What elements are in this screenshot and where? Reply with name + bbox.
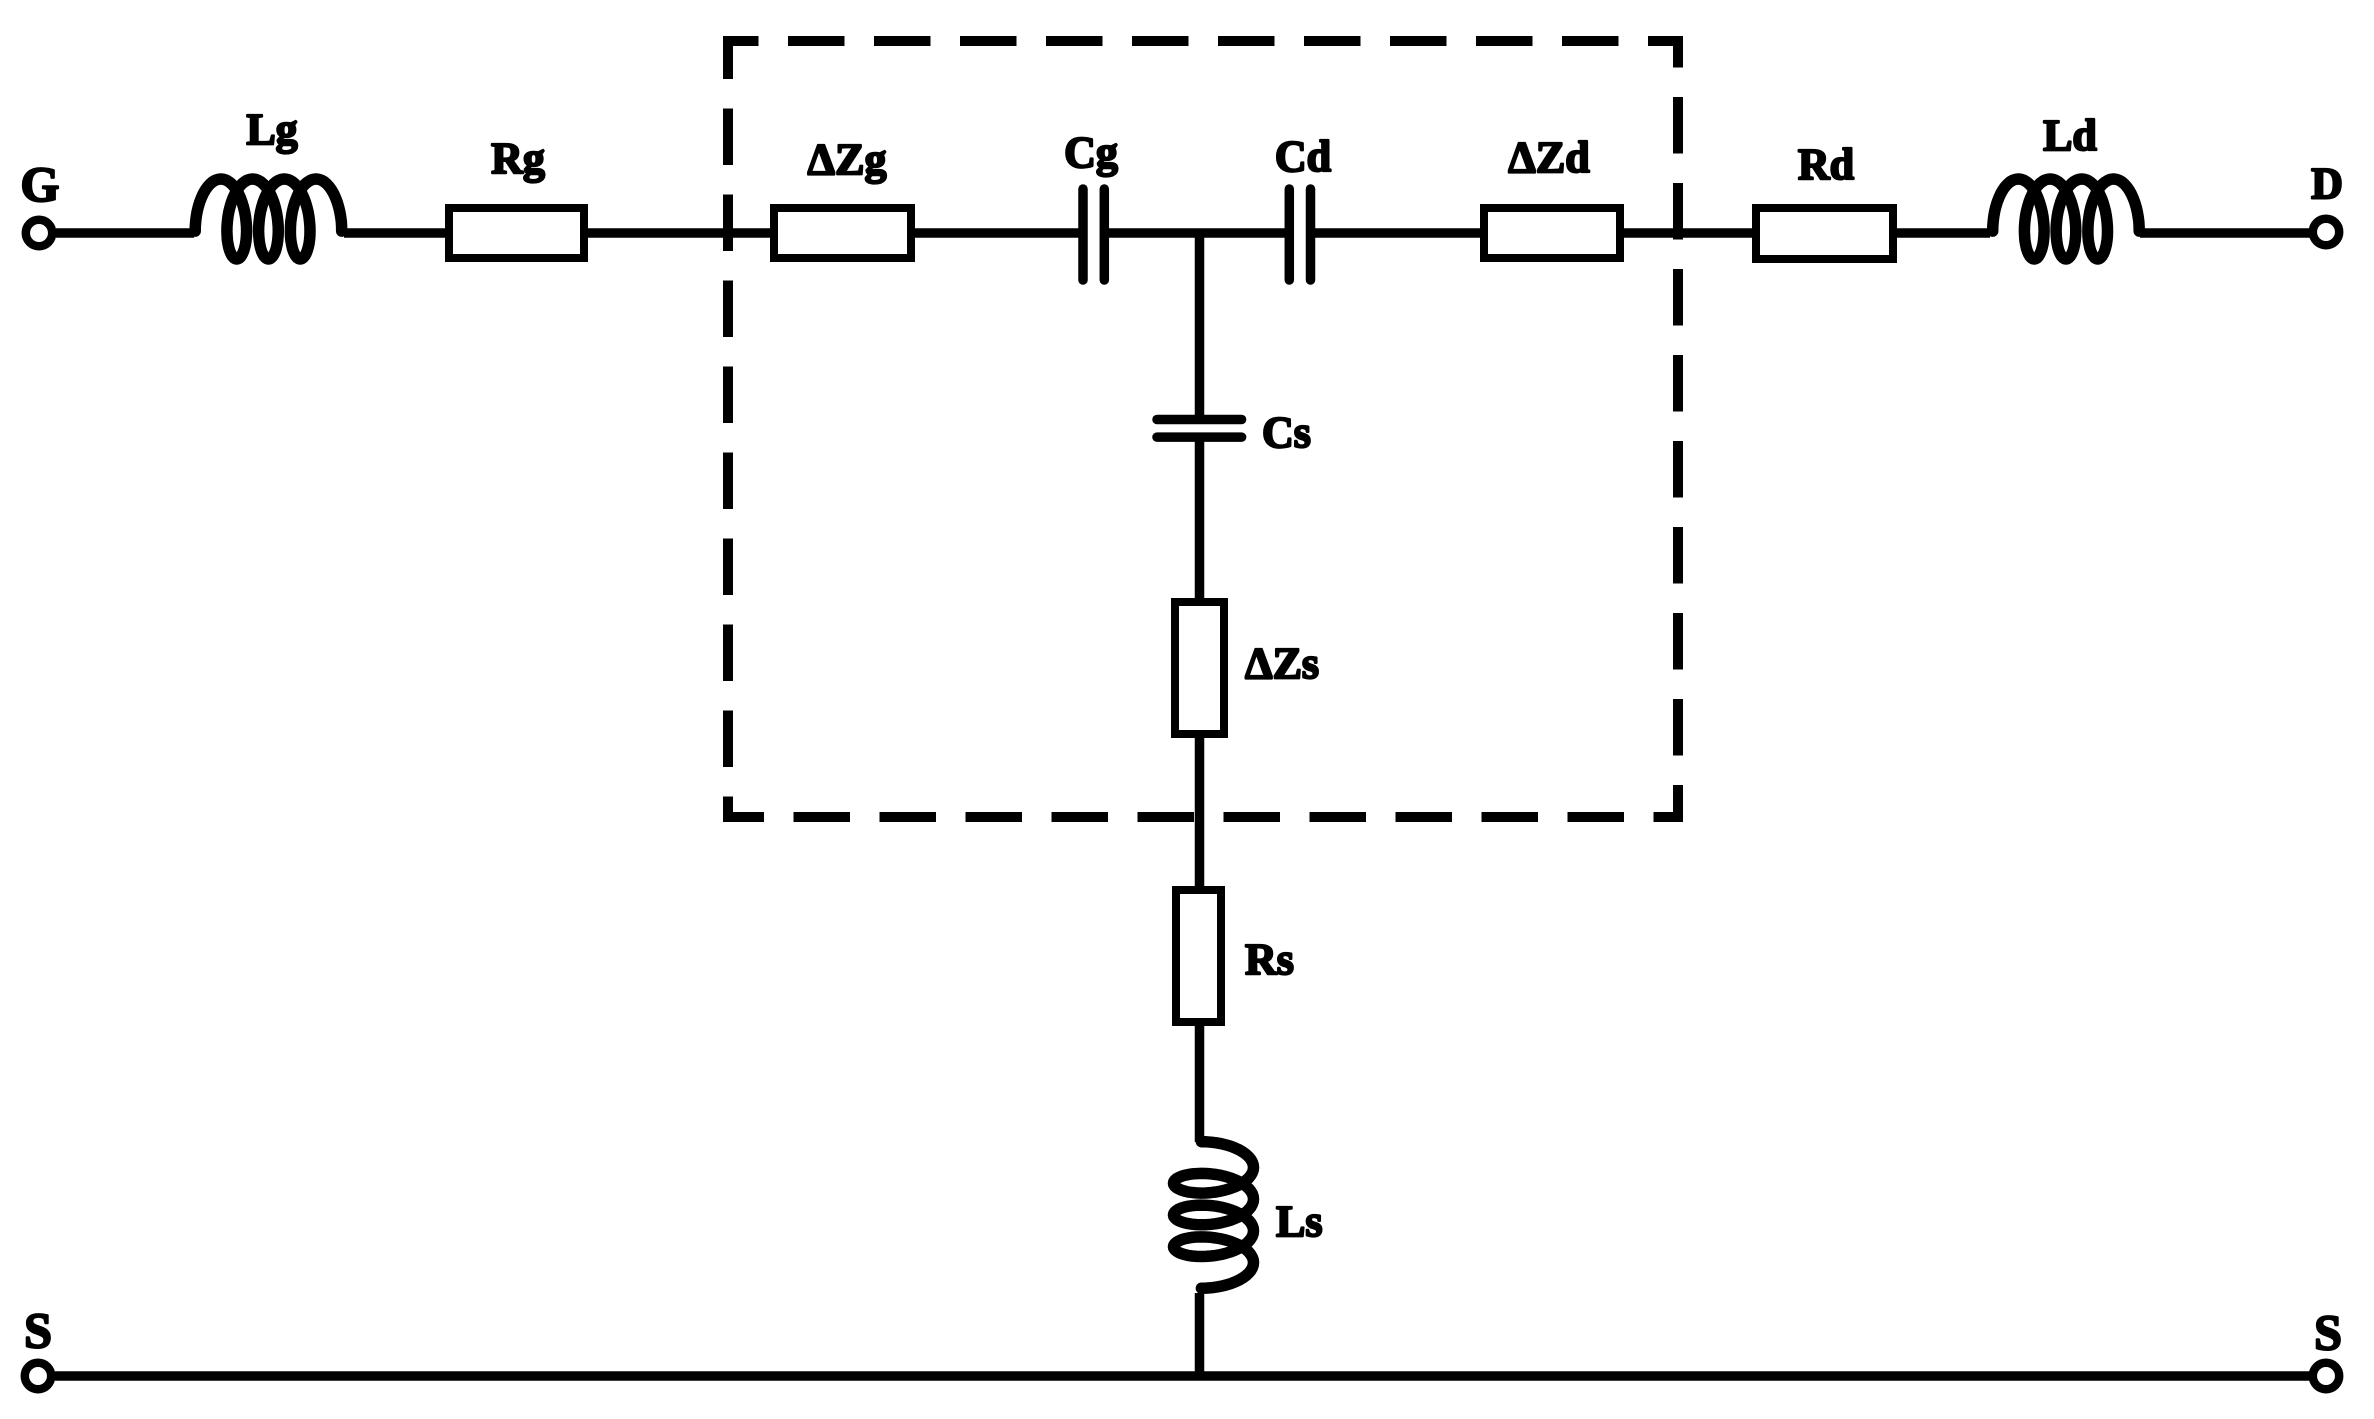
svg-text:S: S [2314, 1304, 2342, 1360]
wire Cs to dZs [1195, 440, 1205, 602]
inductor Lg [195, 105, 342, 259]
svg-text:Rd: Rd [1798, 140, 1854, 189]
svg-text:G: G [21, 156, 60, 212]
source bus wire S to S [55, 1371, 2310, 1381]
resistor Rg [449, 134, 584, 258]
resistor dZs [1175, 602, 1319, 734]
wire Ld to D [2140, 228, 2310, 238]
terminal G [21, 156, 60, 246]
svg-text:ΔZd: ΔZd [1508, 133, 1589, 182]
svg-text:Cd: Cd [1275, 132, 1331, 181]
wire Cg to Cd with junction node [1107, 228, 1287, 238]
svg-text:Rs: Rs [1245, 935, 1294, 984]
svg-text:Lg: Lg [246, 105, 297, 154]
wire Rg to dZg [588, 228, 774, 238]
svg-text:Cs: Cs [1262, 408, 1311, 457]
terminal S left [24, 1302, 52, 1389]
resistor Rs [1176, 890, 1294, 1022]
wire Rs to Ls [1195, 1022, 1205, 1142]
dashed intrinsic-element box [728, 41, 1678, 817]
wire G to Lg [56, 228, 194, 238]
svg-text:D: D [2311, 159, 2343, 208]
resistor Rd [1756, 140, 1893, 259]
svg-text:Rg: Rg [491, 134, 545, 183]
svg-text:ΔZs: ΔZs [1245, 639, 1319, 688]
capacitor Cg [1064, 128, 1118, 280]
capacitor Cd [1275, 132, 1331, 280]
svg-text:S: S [24, 1302, 52, 1358]
svg-text:Ld: Ld [2043, 111, 2097, 160]
resistor dZg [774, 135, 911, 258]
wire dZd to Rd [1620, 228, 1756, 238]
wire Rd to Ld [1893, 228, 1990, 238]
svg-text:Cg: Cg [1064, 128, 1118, 177]
svg-text:ΔZg: ΔZg [808, 135, 887, 184]
inductor Ls [1174, 1142, 1323, 1289]
wire Ls to source bus [1195, 1293, 1205, 1376]
svg-text:Ls: Ls [1276, 1197, 1322, 1246]
wire Cd to dZd [1313, 228, 1484, 238]
resistor dZd [1484, 133, 1620, 258]
inductor Ld [1993, 111, 2140, 259]
wire Lg to Rg [344, 228, 449, 238]
wire dZg to Cg [911, 228, 1080, 238]
capacitor Cs [1157, 408, 1311, 457]
wire junction down to Cs [1195, 233, 1205, 416]
terminal D [2311, 159, 2343, 245]
wire dZs to Rs [1195, 734, 1205, 890]
terminal S right [2313, 1304, 2342, 1389]
